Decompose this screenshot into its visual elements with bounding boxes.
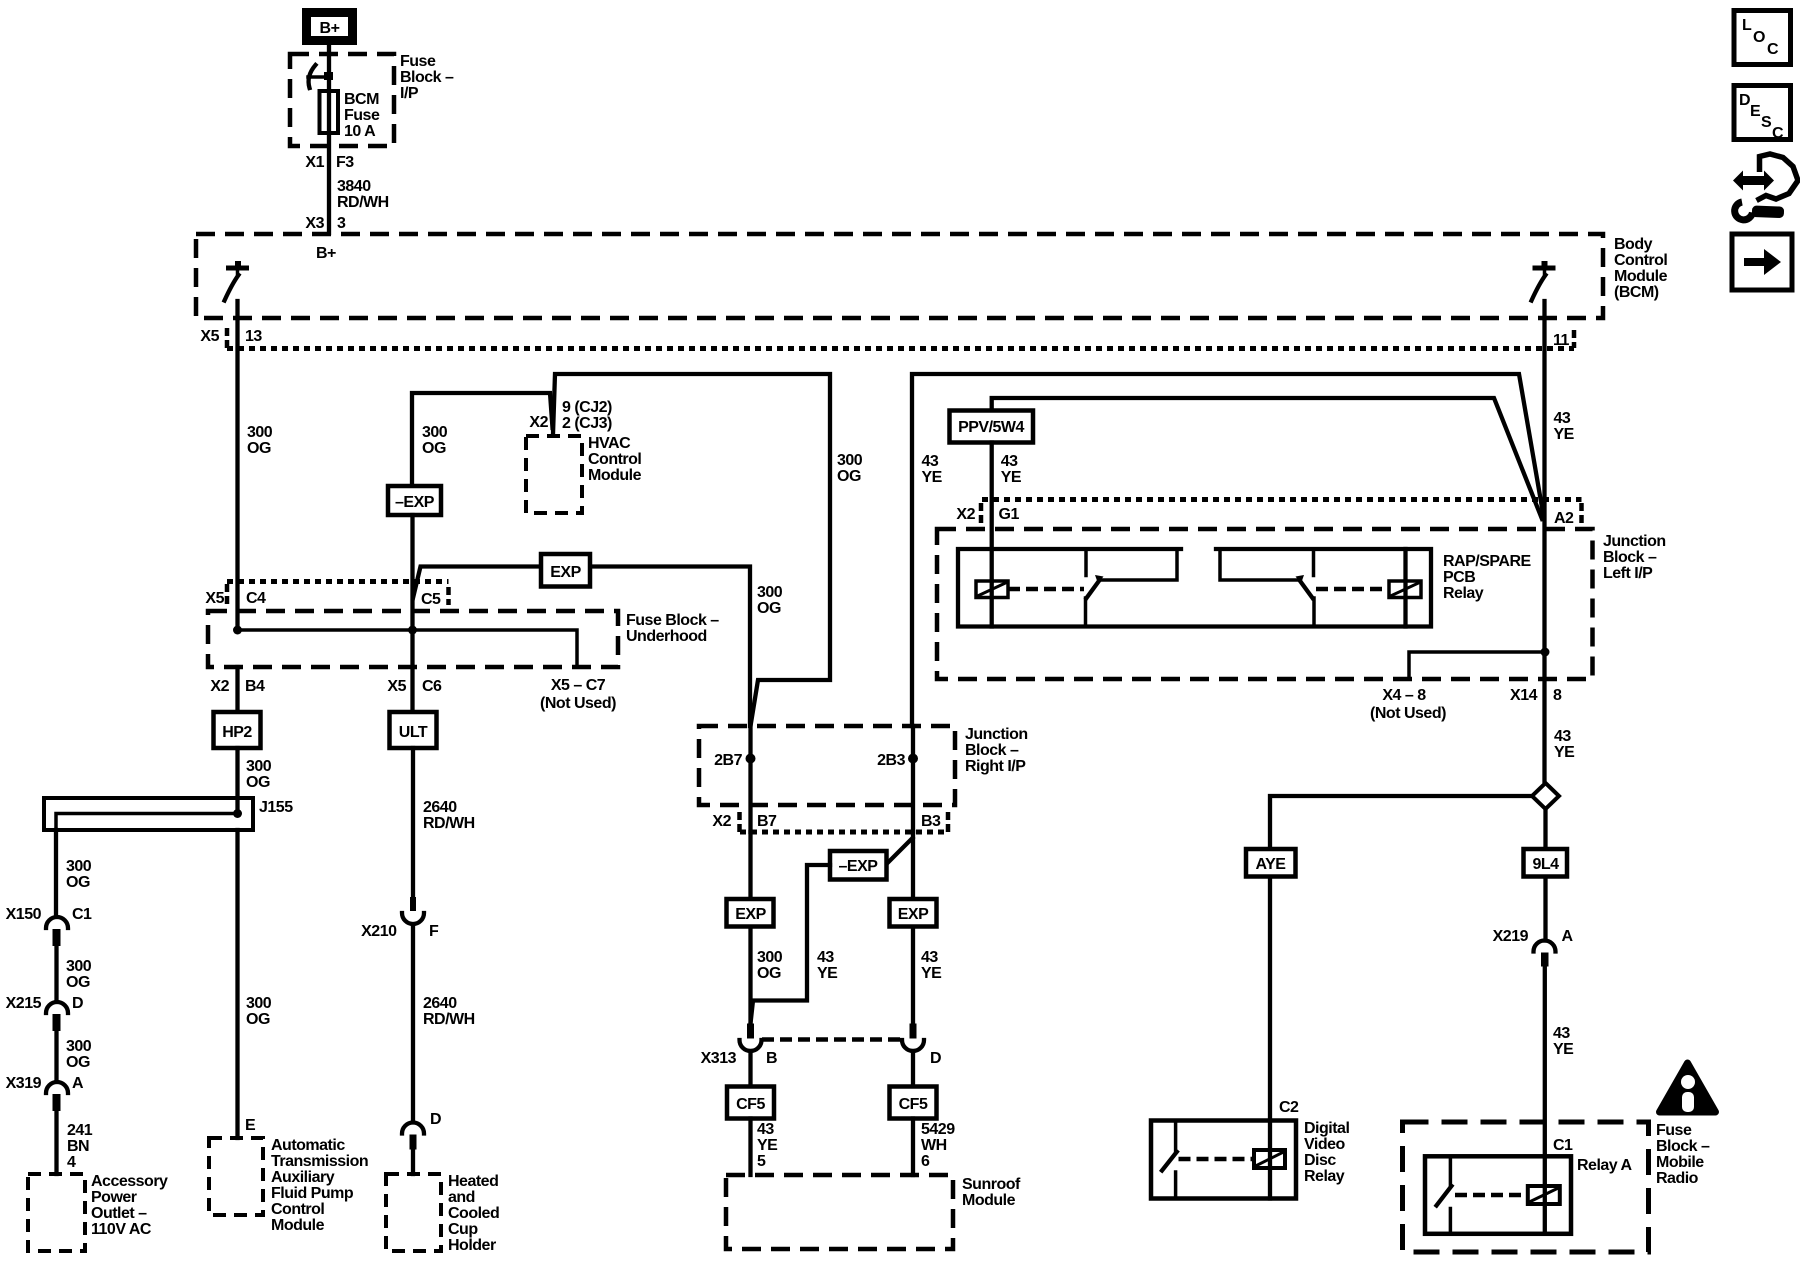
fuse block I/P dashed box: [290, 54, 394, 146]
svg-text:2B7: 2B7: [714, 752, 742, 769]
label 300 OG (branch to 2B7): [837, 452, 863, 485]
svg-text:YE: YE: [1001, 469, 1022, 486]
wire -EXP to ULT (2640 circuit head): [410, 515, 414, 712]
svg-text:HP2: HP2: [222, 724, 252, 741]
connector X313 D: [902, 1024, 924, 1052]
fuse HP2: [214, 712, 261, 748]
svg-text:B+: B+: [316, 245, 336, 262]
svg-text:Digital: Digital: [1304, 1120, 1349, 1137]
svg-text:Automatic: Automatic: [271, 1137, 345, 1154]
svg-text:X2: X2: [956, 506, 975, 523]
svg-text:OG: OG: [247, 440, 271, 457]
svg-text:43: 43: [1554, 410, 1571, 427]
svg-text:J155: J155: [259, 799, 293, 816]
Sunroof Module dashed box: [726, 1175, 953, 1249]
svg-text:43: 43: [922, 453, 939, 470]
svg-text:OG: OG: [66, 1054, 90, 1071]
svg-text:F3: F3: [336, 154, 354, 171]
svg-text:X5: X5: [200, 328, 219, 345]
junction dot A2 wire at X14 stub: [1541, 648, 1550, 657]
connector row X2 B7 B3: [740, 812, 950, 834]
relay coil right (SPARE): [1389, 581, 1421, 598]
wire 2640 RD/WH X210 to D: [411, 925, 415, 1123]
svg-text:2B3: 2B3: [877, 752, 905, 769]
svg-text:X150: X150: [6, 906, 42, 923]
svg-text:8: 8: [1553, 687, 1562, 704]
svg-text:Left I/P: Left I/P: [1603, 565, 1653, 582]
Fuse Block Underhood dashed box: [208, 611, 618, 667]
svg-text:Mobile: Mobile: [1656, 1154, 1704, 1171]
svg-text:B+: B+: [320, 20, 340, 37]
svg-text:Junction: Junction: [1603, 533, 1666, 550]
relay A coil link dashes: [1455, 1193, 1528, 1198]
svg-text:A2: A2: [1554, 510, 1574, 527]
svg-text:Sunroof: Sunroof: [962, 1176, 1021, 1193]
svg-text:YE: YE: [757, 1137, 778, 1154]
connector X313 linking dashes: [762, 1037, 901, 1042]
wire 300 OG J155 to X150: [54, 830, 58, 917]
svg-text:3: 3: [337, 215, 346, 232]
svg-text:Junction: Junction: [965, 726, 1028, 743]
icon compare arrows and wrench: [1733, 154, 1798, 220]
svg-text:X4 – 8: X4 – 8: [1382, 687, 1426, 704]
svg-text:3840: 3840: [337, 178, 371, 195]
fuse PPV/5W4: [950, 411, 1034, 443]
svg-text:Transmission: Transmission: [271, 1153, 368, 1170]
icon forward arrow box: [1732, 234, 1792, 290]
wire X313 B to CF5: [748, 1051, 752, 1087]
svg-text:X319: X319: [6, 1075, 42, 1092]
connector X215 D: [6, 995, 83, 1031]
svg-text:Fuse: Fuse: [344, 107, 380, 124]
junction EXP box (right sunroof wire): [890, 899, 937, 927]
pin X5 13: [200, 328, 262, 345]
svg-text:X5: X5: [205, 590, 224, 607]
wire segment A2 upper feed: [912, 374, 1544, 726]
svg-text:OG: OG: [246, 774, 270, 791]
svg-text:Control: Control: [588, 451, 641, 468]
svg-text:(BCM): (BCM): [1614, 284, 1659, 301]
splice diamond: [1532, 783, 1559, 809]
svg-text:Fuse: Fuse: [400, 53, 436, 70]
svg-text:43: 43: [1554, 728, 1571, 745]
svg-text:Disc: Disc: [1304, 1152, 1336, 1169]
svg-text:I/P: I/P: [400, 85, 419, 102]
svg-text:Underhood: Underhood: [626, 628, 707, 645]
wire B4 to HP2: [235, 667, 239, 712]
svg-text:CF5: CF5: [736, 1096, 765, 1113]
svg-text:L: L: [1742, 17, 1752, 34]
svg-text:OG: OG: [66, 874, 90, 891]
svg-text:OG: OG: [246, 1011, 270, 1028]
svg-text:YE: YE: [1554, 744, 1575, 761]
svg-text:BN: BN: [67, 1138, 89, 1155]
svg-text:Module: Module: [588, 467, 642, 484]
svg-text:Control: Control: [1614, 252, 1667, 269]
Junction Block Left I/P dashed box: [937, 529, 1593, 679]
svg-text:241: 241: [67, 1122, 93, 1139]
pin X14 8: [1510, 687, 1562, 704]
svg-text:C6: C6: [422, 678, 442, 695]
svg-text:YE: YE: [1553, 1041, 1574, 1058]
svg-text:RD/WH: RD/WH: [423, 815, 475, 832]
svg-text:–EXP: –EXP: [395, 494, 435, 511]
connector X219 A: [1493, 928, 1574, 967]
wire 3840 RD/WH: [337, 178, 389, 211]
pin X4-8 not used: [1370, 687, 1446, 722]
svg-text:X2: X2: [712, 813, 731, 830]
wire PPV to G1: [990, 443, 994, 582]
svg-text:C2: C2: [1279, 1099, 1299, 1116]
BCM driver output left: [225, 261, 250, 301]
connector X150 C1: [6, 906, 92, 946]
svg-text:C4: C4: [246, 590, 266, 607]
svg-text:2640: 2640: [423, 799, 457, 816]
junction EXP box: [541, 554, 590, 587]
fuse AYE: [1246, 849, 1296, 877]
svg-text:Radio: Radio: [1656, 1170, 1699, 1187]
svg-text:300: 300: [66, 1038, 92, 1055]
Body Control Module (BCM) dashed box: [196, 234, 1603, 318]
svg-text:EXP: EXP: [898, 906, 929, 923]
svg-text:300: 300: [246, 758, 272, 775]
relay DVD contact: [1162, 1121, 1177, 1199]
wire spare coil through relay: [1403, 549, 1407, 627]
svg-text:Block –: Block –: [1656, 1138, 1710, 1155]
wire C1 coil to relay A bottom: [1543, 1186, 1547, 1234]
svg-text:300: 300: [247, 424, 273, 441]
svg-text:Right I/P: Right I/P: [965, 758, 1026, 775]
pin X2 B4: [210, 678, 265, 695]
wire B3 to sunroof pin 6: [911, 832, 915, 1024]
svg-text:Fuse Block –: Fuse Block –: [626, 612, 719, 629]
BCM driver output right: [1532, 261, 1556, 301]
pin X2 HVAC 9 (CJ2) 2 (CJ3): [529, 399, 612, 432]
svg-text:300: 300: [757, 584, 783, 601]
label 43 YE (X14 to splice): [1554, 728, 1575, 761]
svg-text:C: C: [1772, 125, 1784, 142]
svg-text:X1: X1: [305, 154, 324, 171]
svg-text:Heated: Heated: [448, 1173, 498, 1190]
node B+ battery terminal: [302, 8, 357, 45]
junction -EXP box (sunroof): [830, 851, 887, 880]
fuse ULT: [390, 712, 437, 748]
svg-text:O: O: [1753, 29, 1765, 46]
svg-text:11: 11: [1553, 332, 1570, 349]
svg-text:X313: X313: [701, 1050, 737, 1067]
svg-text:(Not Used): (Not Used): [540, 695, 616, 712]
wire 300 OG X150 to X215: [54, 946, 58, 1001]
wire J155 to ATAFP module (pin E): [235, 830, 239, 1138]
relay contact left: pivot to bottom: [1084, 598, 1088, 627]
svg-text:RD/WH: RD/WH: [423, 1011, 475, 1028]
wire X4-8 stub (not used): [1409, 652, 1545, 679]
svg-text:OG: OG: [757, 965, 781, 982]
icon LOC box: [1734, 11, 1791, 65]
svg-text:Outlet –: Outlet –: [91, 1205, 147, 1222]
svg-text:Relay A: Relay A: [1577, 1157, 1633, 1174]
junction dot C6 bus: [408, 626, 417, 635]
svg-text:X3: X3: [305, 215, 324, 232]
svg-text:B: B: [766, 1050, 777, 1067]
svg-text:B4: B4: [245, 678, 265, 695]
relay A coil: [1528, 1186, 1560, 1204]
svg-text:C1: C1: [1553, 1137, 1573, 1154]
svg-text:Fluid Pump: Fluid Pump: [271, 1185, 354, 1202]
svg-text:43: 43: [921, 949, 938, 966]
svg-text:(Not Used): (Not Used): [1370, 705, 1446, 722]
svg-text:Module: Module: [271, 1217, 325, 1234]
BCM X5 connector row: [227, 328, 1574, 349]
svg-text:Cup: Cup: [448, 1221, 478, 1238]
svg-text:OG: OG: [837, 468, 861, 485]
wire C2 coil through DVD relay: [1268, 1121, 1272, 1199]
svg-text:300: 300: [66, 958, 92, 975]
relay DVD coil link dashes: [1179, 1157, 1255, 1162]
svg-text:Auxiliary: Auxiliary: [271, 1169, 335, 1186]
connector X313 B: [740, 1024, 762, 1052]
svg-text:AYE: AYE: [1256, 856, 1287, 873]
fuse BCM Fuse 10 A: [320, 91, 339, 133]
connector D cup holder: [402, 1111, 441, 1174]
relay contact left: blade: [1087, 575, 1104, 598]
label 43 YE (PPV branch): [1001, 453, 1022, 486]
wire HVAC circuit upper (9 CJ2): [553, 374, 830, 726]
svg-text:E: E: [1750, 103, 1761, 120]
svg-text:D: D: [930, 1050, 941, 1067]
svg-text:A: A: [72, 1075, 84, 1092]
svg-text:Module: Module: [1614, 268, 1668, 285]
node 2B3: [908, 754, 918, 764]
svg-text:C: C: [1767, 41, 1779, 58]
svg-text:G1: G1: [999, 506, 1020, 523]
svg-text:Video: Video: [1304, 1136, 1346, 1153]
svg-text:Module: Module: [962, 1192, 1016, 1209]
svg-text:D: D: [1739, 92, 1750, 109]
fuse CF5 (right): [890, 1087, 937, 1119]
svg-text:110V AC: 110V AC: [91, 1221, 152, 1238]
svg-text:D: D: [72, 995, 83, 1012]
wire internal bus fuse block underhood: [238, 630, 578, 665]
fuse CF5 (left): [727, 1087, 774, 1119]
svg-text:X5: X5: [387, 678, 406, 695]
svg-text:EXP: EXP: [735, 906, 766, 923]
svg-text:Power: Power: [91, 1189, 137, 1206]
relay contact right: link to top terminal: [1220, 550, 1297, 580]
wire G1 coil through relay: [990, 581, 994, 627]
svg-text:Relay: Relay: [1443, 585, 1484, 602]
icon DESC box: [1734, 86, 1791, 143]
relay contact right: fixed stub: [1312, 549, 1316, 576]
Junction Block Right I/P dashed box: [699, 726, 955, 805]
svg-text:43: 43: [817, 949, 834, 966]
wire B7 to sunroof pin 5: [748, 832, 752, 1024]
wire B+ feed to BCM: [327, 45, 331, 233]
label 43 YE (A2 wire): [1554, 410, 1575, 443]
svg-text:E: E: [245, 1117, 256, 1134]
svg-text:S: S: [1761, 114, 1772, 131]
pin X5 C4: [205, 590, 266, 607]
wire 300 OG HP2 to J155: [235, 748, 239, 814]
svg-text:43: 43: [1001, 453, 1018, 470]
svg-text:D: D: [430, 1111, 441, 1128]
svg-text:Block –: Block –: [1603, 549, 1657, 566]
svg-text:F: F: [429, 923, 439, 940]
node 2B7: [746, 754, 756, 764]
wire 300 OG X215 to X319: [54, 1031, 58, 1081]
splice pack J155: [44, 798, 293, 830]
junction -EXP box (expansion marker): [388, 486, 441, 515]
svg-text:Body: Body: [1614, 236, 1653, 253]
svg-text:300: 300: [837, 452, 863, 469]
svg-text:43: 43: [1553, 1025, 1570, 1042]
svg-text:300: 300: [757, 949, 783, 966]
pin X1 F3: [305, 154, 354, 171]
svg-text:–EXP: –EXP: [839, 858, 879, 875]
svg-text:10 A: 10 A: [344, 123, 376, 140]
svg-text:C5: C5: [421, 591, 441, 608]
pin X2 G1: [956, 506, 1019, 523]
wire HVAC circuit lower (2 CJ3): [412, 393, 553, 486]
relay Digital Video Disc Relay box: [1151, 1121, 1296, 1199]
pin X313 B D: [701, 1050, 941, 1067]
svg-text:EXP: EXP: [550, 564, 581, 581]
relay Relay A box: [1425, 1156, 1571, 1234]
wire 2640 RD/WH ULT to X210: [411, 748, 415, 897]
svg-text:RD/WH: RD/WH: [337, 194, 389, 211]
relay RAP/SPARE PCB Relay outline: [958, 549, 1431, 627]
svg-text:Cooled: Cooled: [448, 1205, 499, 1222]
relay contact right: coil link dashes: [1316, 587, 1389, 592]
relay A contact: [1437, 1156, 1452, 1234]
connector X319 A: [6, 1075, 84, 1111]
wire segment A2 lower feed (PPV): [992, 398, 1542, 519]
relay contact right: pivot to bottom: [1312, 598, 1316, 627]
svg-text:Relay: Relay: [1304, 1168, 1345, 1185]
svg-text:PCB: PCB: [1443, 569, 1475, 586]
svg-text:YE: YE: [817, 965, 838, 982]
svg-text:Accessory: Accessory: [91, 1173, 168, 1190]
svg-text:OG: OG: [422, 440, 446, 457]
fuse 9L4: [1524, 849, 1568, 877]
Automatic Transmission Auxiliary Fluid Pump Control Module dashed box: [209, 1138, 263, 1215]
svg-text:X2: X2: [529, 414, 548, 431]
svg-text:300: 300: [422, 424, 448, 441]
svg-text:13: 13: [245, 328, 262, 345]
svg-text:9L4: 9L4: [1532, 856, 1559, 873]
svg-text:X14: X14: [1510, 687, 1538, 704]
label 43 YE (2B3 branch): [922, 453, 943, 486]
Fuse Block Mobile Radio dashed box: [1403, 1122, 1649, 1252]
svg-text:YE: YE: [922, 469, 943, 486]
connector row X5 C4 C5: [227, 582, 449, 606]
svg-text:Block –: Block –: [400, 69, 454, 86]
svg-text:WH: WH: [921, 1137, 947, 1154]
svg-text:OG: OG: [66, 974, 90, 991]
connector row X2 G1 A2 junction block left: [981, 500, 1582, 524]
svg-text:Control: Control: [271, 1201, 324, 1218]
svg-text:B3: B3: [921, 813, 941, 830]
svg-text:2 (CJ3): 2 (CJ3): [562, 415, 612, 432]
pin X2 B7: [712, 813, 777, 830]
junction EXP box (left sunroof wire): [727, 899, 774, 927]
relay contact right: blade: [1296, 575, 1313, 598]
Heated and Cooled Cup Holder dashed box: [386, 1174, 441, 1251]
Accessory Power Outlet 110V AC dashed box: [28, 1174, 85, 1251]
pin X3 3: [305, 215, 346, 232]
wire BCM pin 11 to A2: [1542, 301, 1546, 781]
wire 241 BN pin 4: [54, 1111, 58, 1174]
svg-text:A: A: [1562, 928, 1574, 945]
wire EXP branch to 2B7: [413, 567, 750, 727]
svg-text:X210: X210: [361, 923, 397, 940]
svg-text:OG: OG: [757, 600, 781, 617]
svg-text:X215: X215: [6, 995, 42, 1012]
svg-text:YE: YE: [1554, 426, 1575, 443]
pin X5-C7 not used: [540, 677, 616, 712]
wire 2B7 through junction block: [748, 726, 752, 832]
wire splice to AYE branch: [1270, 796, 1530, 1121]
svg-text:2640: 2640: [423, 995, 457, 1012]
wire X313 D to CF5: [911, 1051, 915, 1087]
wire B3 branch into -EXP: [887, 838, 913, 864]
wire 2B3 through junction block: [911, 726, 915, 832]
relay contact left: link to top terminal: [1101, 550, 1177, 580]
relay DVD coil: [1254, 1150, 1285, 1168]
svg-text:Holder: Holder: [448, 1237, 496, 1254]
svg-text:HVAC: HVAC: [588, 435, 631, 452]
wire 300 OG from BCM pin 13: [235, 301, 239, 630]
svg-text:43: 43: [757, 1121, 774, 1138]
svg-text:X2: X2: [210, 678, 229, 695]
wire 43 YE -EXP crosslink: [751, 865, 831, 1024]
svg-text:4: 4: [67, 1154, 76, 1171]
svg-text:5: 5: [757, 1153, 766, 1170]
svg-text:9 (CJ2): 9 (CJ2): [562, 399, 612, 416]
pin X5 C6: [387, 678, 442, 695]
svg-text:and: and: [448, 1189, 475, 1206]
svg-text:Block –: Block –: [965, 742, 1019, 759]
relay coil left (RAP): [976, 581, 1008, 598]
label 300 OG (-EXP branch): [422, 424, 448, 457]
warning info triangle: [1660, 1063, 1716, 1112]
svg-text:X219: X219: [1493, 928, 1529, 945]
svg-text:6: 6: [921, 1153, 930, 1170]
label 43 YE (B3 wire): [921, 949, 942, 982]
connector X210 F: [361, 897, 439, 940]
wire 5429 WH pin 6: [911, 1119, 915, 1176]
svg-text:300: 300: [246, 995, 272, 1012]
HVAC Control Module dashed box: [526, 436, 582, 513]
svg-text:PPV/5W4: PPV/5W4: [958, 419, 1024, 436]
svg-text:Fuse: Fuse: [1656, 1122, 1692, 1139]
svg-text:RAP/SPARE: RAP/SPARE: [1443, 553, 1531, 570]
junction dot B4 bus: [233, 626, 242, 635]
svg-text:ULT: ULT: [399, 724, 428, 741]
svg-text:X5 – C7: X5 – C7: [551, 677, 606, 694]
svg-text:300: 300: [66, 858, 92, 875]
svg-text:CF5: CF5: [899, 1096, 928, 1113]
relay contact left: fixed stub: [1084, 549, 1088, 576]
fuse block I/P terminal hook: [308, 65, 333, 88]
wire 43 YE pin 5: [748, 1119, 752, 1176]
label 300 OG (EXP to 2B7 wire): [757, 584, 783, 617]
wire 43 YE X219 to relay A: [1543, 967, 1547, 1187]
svg-text:C1: C1: [72, 906, 92, 923]
wire splice to 9L4: [1543, 812, 1547, 941]
relay contact left: coil link dashes: [1008, 587, 1084, 592]
svg-text:BCM: BCM: [344, 91, 379, 108]
